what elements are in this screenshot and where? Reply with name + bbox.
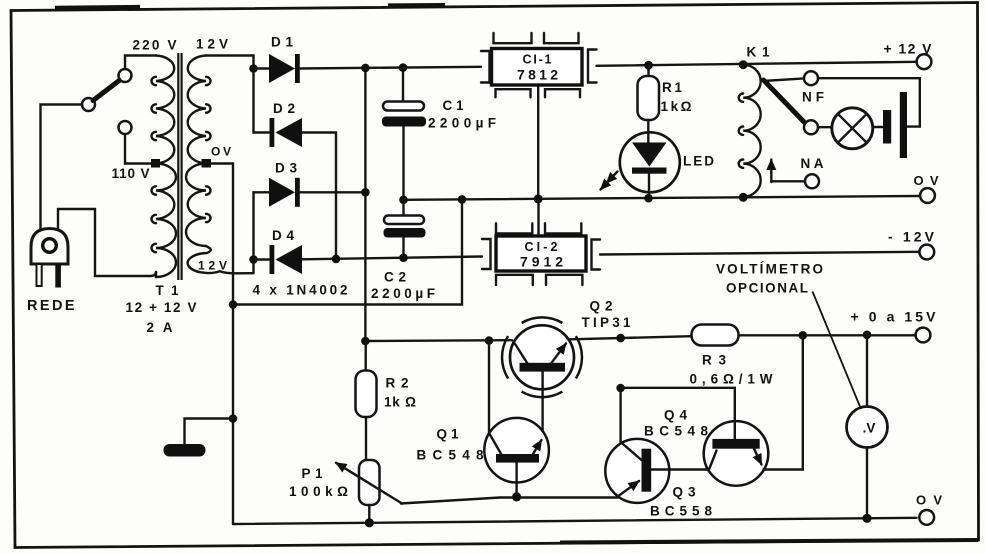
wire 0V link to mid rail [233,200,462,305]
LED [620,132,680,198]
secondary 12V top lead [206,54,254,56]
svg-text:0,6Ω/1W: 0,6Ω/1W [690,372,773,387]
wire secondary top down-riser to D2 [254,56,270,133]
node Q1 riser [485,336,494,345]
node Q1 emitter / line [512,492,521,501]
terminal 0V (mid) [920,188,935,203]
wire D3 anode from riser [254,192,270,259]
svg-text:12V: 12V [196,37,228,52]
+raw vertical D1-D3-R2 [364,68,366,341]
voltmeter [847,335,888,518]
switch arm [93,80,121,101]
svg-text:+ 12 V: + 12 V [884,41,933,57]
diode D1 [269,54,300,83]
node link/0V [229,300,238,309]
svg-text:12V: 12V [198,259,227,273]
wire CI-1 output to +12V terminal (+12V rail) [597,62,917,66]
svg-text:.V: .V [863,421,876,436]
transformer T1 primary winding [156,56,176,278]
relay contact NA [805,174,819,188]
0V mid rail [404,196,921,200]
resistor R2 [356,341,377,460]
resistor R1 [638,65,660,143]
wire D1 anode stub [254,67,270,69]
svg-text:REDE: REDE [27,298,77,314]
wire common to lamp [818,126,833,128]
transistor Q2 TIP31 [502,317,582,437]
wire NA to plunger arrow [771,180,805,182]
wire CI-1 gnd pin to mid rail [537,85,539,199]
regulator CI-1 7812 [481,33,597,97]
node P1 bottom / 0V rail [365,518,374,527]
node +raw/D1 [361,64,370,73]
wire plug left lead to switch pole [41,105,83,230]
LED light arrows [607,172,618,184]
node K1 top [739,60,748,69]
svg-text:TIP31: TIP31 [582,315,631,330]
node voltmeter top [863,331,872,340]
wire D4 cathode stub [254,258,270,260]
wire secondary bottom riser to D4 node [252,260,254,274]
node +12V rail / R1 [644,61,653,70]
terminal +0 a 15V [916,328,931,343]
diode D2 [270,118,303,147]
wire 220V contact to primary top [125,56,156,69]
wire D3 cathode to +raw vertical [300,191,365,193]
potentiometer P1 [336,460,402,523]
node mid/link [458,195,467,204]
node emitter rail / limiter riser [616,334,625,343]
wire NF to battery loop [818,78,920,126]
svg-text:LED: LED [683,154,714,169]
battery cell short plate [883,110,891,144]
mains plug REDE [31,229,68,288]
switch contact 220V [119,69,132,82]
relay contact NF [804,71,818,85]
svg-text:1k Ω: 1k Ω [384,395,416,410]
node R3 right / Q4 riser [799,331,808,340]
wire D4 anode to CI-2 input (-raw rail) [302,257,482,260]
transistor Q3 BC558 [605,388,709,503]
node K1 bottom / mid rail [739,193,748,202]
terminal +12V [917,54,932,69]
0V vertical from center tap [232,164,234,525]
capacitor C1 [382,68,426,200]
node +raw/D3 [361,188,370,197]
node D1 anode junction [249,64,258,73]
wire center tap to 0V vertical [211,162,233,164]
wire D2 anode right and down to D4 line [302,133,336,260]
svg-text:OPCIONAL: OPCIONAL [726,281,808,296]
+raw rail to Q2 collector [365,339,512,342]
svg-text:12 + 12 V: 12 + 12 V [126,300,197,315]
wire Q2 emitter rail to R3 [571,336,692,339]
node C1 top [399,63,408,72]
wire plug right lead to transformer primary bottom [58,209,156,276]
node D3/D4/tap junction [249,255,258,264]
capacitor C2 [384,200,426,258]
transformer core [178,53,181,280]
terminal 0V bottom [919,510,934,525]
relay K1 coil [743,65,761,197]
battery cell long plate [900,92,907,158]
terminal -12V [919,245,934,260]
node mid/C1C2 [399,196,408,205]
svg-text:220 V: 220 V [133,38,177,53]
transistor Q4 BC548 [621,335,803,485]
node ground branch [229,414,238,423]
regulator CI-2 7912 [482,223,600,285]
node CI pins / mid rail [534,194,543,203]
svg-text:110 V: 110 V [112,166,150,181]
svg-text:VOLTÍMETRO: VOLTÍMETRO [716,262,823,277]
voltmeter callout line [813,292,862,410]
ground [164,444,206,457]
secondary center tap 0V [202,159,212,168]
svg-text:2 A: 2 A [147,320,173,335]
diode D4 [270,245,303,274]
svg-text:T 1: T 1 [156,283,179,298]
lamp [832,108,873,149]
node R1 top [644,61,653,70]
wire D1 cathode to CI-1 input (+raw top rail) [300,67,481,69]
node Q4 base branch [616,384,625,393]
resistor R3 [692,325,916,346]
node voltmeter bottom / 0V rail [862,514,871,523]
switch pole contact [82,98,95,111]
wire CI-2 output to -12V terminal (-12V rail) [600,252,920,255]
node R2 top [361,337,370,346]
node C2 bottom [399,253,408,262]
node LED bottom / mid rail [644,194,653,203]
wire lamp to battery [873,126,883,128]
relay plunger arrow [770,160,772,183]
transistor Q1 BC548 [484,341,549,497]
switch contact 110V [119,121,132,134]
wire P1 wiper to emitter line [401,498,618,504]
wire 110V contact to primary tap [125,135,151,164]
0V bottom rail [233,518,917,524]
relay armature arm [764,80,806,124]
primary 110V tap [151,159,160,168]
node D2/D4 junction [332,255,341,264]
relay armature thin link to NF [763,78,804,81]
wire to ground [185,419,234,445]
secondary bottom loop around 12V label [188,246,254,273]
svg-text:1kΩ: 1kΩ [661,99,692,114]
transformer secondary winding [186,56,206,247]
diode D3 [269,178,300,207]
wire CI-2 gnd pin to mid rail [537,199,539,236]
relay common contact [804,120,818,134]
